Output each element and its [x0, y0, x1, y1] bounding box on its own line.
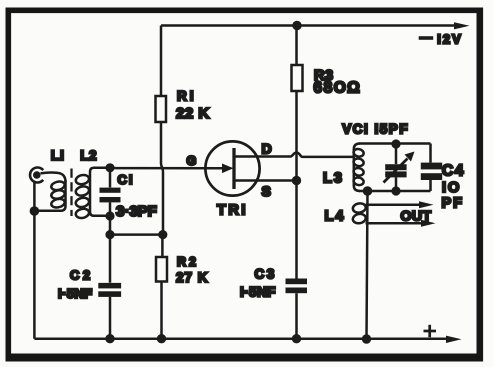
arrowhead OUT top: [419, 201, 434, 208]
svg-text:27 K: 27 K: [176, 270, 209, 285]
node: tank bottom / ground vertical: [363, 186, 373, 196]
capacitor C4: [421, 144, 442, 192]
svg-text:3·3PF: 3·3PF: [116, 203, 157, 220]
svg-text:VCI I5PF: VCI I5PF: [342, 122, 409, 137]
capacitor C1: [100, 168, 121, 235]
svg-text:PF: PF: [442, 196, 465, 212]
svg-text:68OΩ: 68OΩ: [314, 79, 362, 96]
node: rail / R2: [157, 334, 166, 343]
svg-text:CI: CI: [118, 172, 135, 187]
node: tank bottom / VC1: [391, 186, 400, 195]
resistor R1: [156, 96, 167, 122]
arrowhead OUT bottom: [421, 220, 436, 227]
svg-text:TRI: TRI: [217, 203, 248, 219]
svg-text:I·5NF: I·5NF: [58, 286, 93, 301]
svg-text:L4: L4: [325, 209, 346, 225]
wire: bottom positive rail: [34, 337, 450, 340]
inductor L3: [353, 144, 365, 192]
svg-text:C2: C2: [70, 268, 94, 283]
arrowhead + rail: [446, 336, 462, 343]
label -12V: [419, 32, 463, 47]
wire: tank bottom: [359, 190, 431, 193]
svg-text:OUT: OUT: [401, 208, 432, 224]
inductor L1: [50, 180, 65, 211]
svg-text:RI: RI: [177, 88, 197, 103]
node: C1 bottom / L2 bottom: [105, 211, 114, 220]
svg-text:S: S: [262, 183, 271, 199]
wire: tank top: [359, 142, 431, 145]
transformer core dashed line: [70, 169, 72, 217]
svg-text:22 K: 22 K: [176, 105, 210, 122]
svg-text:IO: IO: [442, 180, 461, 196]
wire: top negative supply rail: [161, 24, 456, 27]
resistor R3: [292, 65, 303, 91]
svg-text:L2: L2: [80, 148, 97, 163]
wire: source wire to R3/C3 vertical: [234, 179, 297, 182]
antenna terminal socket: [30, 168, 43, 183]
node: rail / C2: [105, 334, 114, 343]
resistor R2: [156, 257, 167, 282]
svg-text:L3: L3: [323, 171, 344, 187]
svg-text:LI: LI: [51, 148, 65, 163]
wire: C1 bottom node to bias vertical: [110, 233, 162, 236]
wire: terminal pin to L1 top: [41, 173, 66, 182]
node: top rail / R3 junction: [292, 21, 301, 30]
capacitor C2: [98, 235, 121, 339]
node: L1 bottom / left vertical: [30, 206, 40, 216]
wire: gate wire from L2/C1 node to TR1: [104, 167, 224, 170]
inductor L2: [75, 168, 108, 219]
svg-text:R2: R2: [177, 255, 199, 269]
wire: bias vertical to R2: [161, 235, 164, 257]
wire: R3 vertical lower through S node to C3: [295, 91, 298, 279]
svg-text:C3: C3: [255, 266, 277, 281]
node: rail / C3: [292, 334, 301, 343]
wire: bias vertical middle (R1 to gate crossing, with hop jog): [161, 122, 163, 235]
label +: [424, 325, 437, 337]
node: source / R3-C3 vertical: [292, 176, 301, 185]
transistor TR1: [205, 141, 259, 195]
node: corner to C2 branch: [105, 230, 114, 239]
capacitor C3: [286, 279, 308, 339]
wire: bias vertical upper (rail to R1): [160, 26, 163, 97]
wire: R2 to ground rail: [160, 282, 163, 339]
wire: drain wire with hop over R3 vertical: [234, 153, 354, 157]
wire: tank ground vertical: [367, 191, 368, 339]
arrowhead -12V rail: [454, 22, 470, 29]
svg-text:I2V: I2V: [437, 32, 463, 47]
variable capacitor VC1: [384, 144, 415, 191]
svg-text:D: D: [262, 140, 272, 156]
wire: L1 bottom to ground junction: [36, 210, 61, 213]
wire: R3 vertical upper: [295, 26, 298, 66]
inductor L4: [352, 202, 366, 224]
svg-text:G: G: [187, 154, 197, 168]
node: bias vertical / C1 bottom wire: [158, 230, 167, 239]
svg-text:C4: C4: [442, 163, 465, 180]
svg-text:I·5NF: I·5NF: [240, 284, 276, 299]
node: rail / tank ground: [362, 334, 371, 343]
wire: OUT bottom line: [366, 222, 427, 225]
wire: OUT top line: [366, 204, 425, 207]
wire: terminal shell down left vertical: [33, 182, 36, 339]
node: gate wire / C1 top: [105, 163, 114, 172]
node: tank top / VC1: [391, 139, 400, 148]
